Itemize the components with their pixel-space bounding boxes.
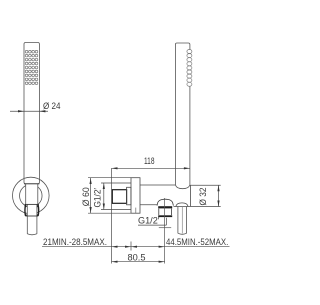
handle grip below ring bbox=[27, 204, 37, 234]
svg-text:Ø 24: Ø 24 bbox=[43, 101, 61, 111]
valve knob (bold square) bbox=[112, 190, 126, 204]
dimension Ø32 vertical line with arrows bbox=[218, 185, 220, 206]
hand shower head (front view) bbox=[24, 43, 39, 184]
nozzle circles on side view bbox=[187, 50, 192, 87]
nipple bottom band (bold) bbox=[158, 215, 172, 217]
svg-text:Ø 60: Ø 60 bbox=[81, 187, 91, 206]
dimension Ø60 vertical line with arrows bbox=[90, 178, 92, 213]
dimension G1/2 vertical line with arrows bbox=[103, 183, 105, 210]
svg-text:21MIN.-28.5MAX.: 21MIN.-28.5MAX. bbox=[43, 237, 107, 247]
G1/2 extension lines bbox=[101, 183, 131, 210]
svg-text:G1/2′: G1/2′ bbox=[93, 188, 103, 208]
small stub line left of outlet bbox=[135, 208, 137, 213]
holder cup bottom edge bbox=[174, 206, 191, 208]
nipple body sides bbox=[159, 209, 172, 215]
shower handle through ring (front view) bbox=[24, 184, 39, 205]
dimension 80.5 line bbox=[112, 261, 165, 263]
G1/2' label underline and leader bbox=[138, 218, 166, 225]
tube bottom rounded end inside holder cup bbox=[175, 185, 190, 189]
outlet nipple threaded ring (bold top band) bbox=[158, 206, 172, 208]
svg-text:Ø 32: Ø 32 bbox=[198, 187, 208, 205]
svg-text:118: 118 bbox=[144, 156, 155, 166]
centerline cross tick bbox=[159, 227, 171, 229]
dimension 118 line bbox=[112, 167, 190, 169]
ring cradle top bar bbox=[25, 203, 39, 205]
extension tick at plate face bbox=[130, 242, 132, 251]
arrows at 111.5 / 131 / 164.6 bbox=[112, 246, 165, 248]
ring cradle bottom bar bbox=[25, 215, 38, 217]
wall ring holder inner circle bbox=[20, 184, 43, 207]
holder body bottom edge bbox=[140, 204, 157, 206]
outlet dome cap bbox=[157, 199, 173, 205]
holder cup right edge bbox=[189, 185, 191, 207]
holder body top edge bbox=[140, 184, 175, 186]
Ø32 extension lines bbox=[191, 185, 221, 206]
ring clip hooks bbox=[25, 205, 39, 215]
valve trim plate (side view) bbox=[131, 178, 140, 214]
outlet centerline bbox=[164, 198, 166, 264]
dimension Ø24 line with arrows bbox=[10, 110, 48, 112]
knob neck bbox=[127, 187, 131, 205]
svg-text:80.5: 80.5 bbox=[128, 253, 146, 263]
hose pipe middle line bbox=[181, 207, 183, 234]
holder cup bottom rim arc bbox=[176, 203, 188, 207]
hose pipe bottom end bbox=[178, 233, 187, 234]
Ø60 extension lines bbox=[88, 178, 131, 214]
extension line from knob face down to bottom dims bbox=[111, 168, 113, 263]
svg-text:G1/2′: G1/2′ bbox=[138, 216, 160, 226]
svg-text:44.5MIN.-52MAX.: 44.5MIN.-52MAX. bbox=[166, 237, 228, 247]
bottom dimension line (21MIN / 44.5MIN) bbox=[42, 246, 230, 248]
wall ring holder outer circle (front view) bbox=[13, 177, 50, 214]
spray face dot grid bbox=[25, 50, 37, 84]
hose pipe below cup bbox=[178, 207, 187, 234]
hand shower (side view) tube bbox=[175, 43, 190, 185]
